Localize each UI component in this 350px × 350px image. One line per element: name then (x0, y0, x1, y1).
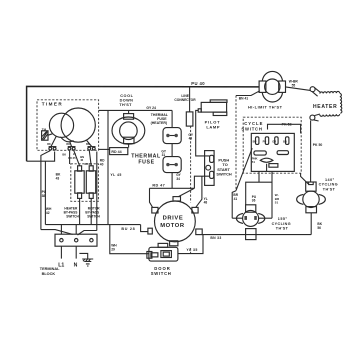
wire: push-to-start bottom stub (194, 176, 209, 188)
svg-text:BN 33: BN 33 (210, 236, 221, 240)
wire: x108 riser (YL-45) (107, 110, 109, 224)
heater element R1 (zigzag) (320, 91, 340, 93)
wire: thermal fuse bottom drop (171, 173, 173, 189)
wire: N lead (75, 246, 77, 258)
wire: motor by-pass bottom drop (90, 198, 92, 224)
svg-text:51: 51 (252, 160, 256, 164)
label RD 44 (boxed) (110, 148, 128, 155)
timer cam left circle (49, 113, 73, 137)
svg-text:DOWN: DOWN (120, 98, 134, 102)
svg-text:RD: RD (66, 143, 70, 146)
timer cam chin arc (61, 137, 74, 142)
drive motor M1 (148, 197, 202, 246)
140 cycling thermostat (297, 182, 326, 213)
svg-text:CONNECTOR: CONNECTOR (174, 98, 196, 102)
console boundary dashed line (190, 126, 192, 253)
wire: heater by-pass bottom drop (79, 198, 81, 224)
wire: YL-35 door switch to motor (178, 235, 203, 254)
svg-text:LAMP: LAMP (206, 125, 220, 130)
cycle switch small contact (269, 164, 278, 168)
svg-text:SWITCH: SWITCH (216, 172, 232, 177)
wire: BK drop second riser (44, 162, 46, 225)
svg-text:BLOCK: BLOCK (42, 272, 56, 276)
svg-text:RD 44: RD 44 (111, 150, 121, 154)
svg-text:TH'ST: TH'ST (276, 226, 289, 230)
wire: RD-44 to timer (99, 148, 110, 150)
svg-text:TM: TM (42, 127, 47, 131)
svg-text:MOTOR: MOTOR (160, 223, 185, 229)
cycle switch body (251, 133, 294, 171)
wire: WH-29 to door switch (110, 225, 149, 254)
wire: L1 lead (60, 246, 62, 258)
svg-text:42: 42 (46, 211, 50, 215)
155 cycling thermostat (236, 205, 264, 240)
wire: BN-41 jog to 155 thermostat (232, 191, 236, 218)
svg-text:FUSE: FUSE (138, 160, 154, 166)
svg-text:48: 48 (204, 201, 208, 205)
hi-limit thermostat (259, 71, 285, 102)
wire: timer to thermal fuse heater (GY-24) (99, 109, 173, 111)
by-pass switch dashed box (71, 164, 99, 202)
svg-text:TERMINAL: TERMINAL (40, 267, 60, 271)
svg-text:OR: OR (272, 140, 276, 144)
wire: YL-48 drop to motor (196, 176, 202, 207)
svg-text:34: 34 (176, 177, 180, 181)
wire: neutral bus horizontal (61, 224, 140, 226)
svg-text:TH'ST: TH'ST (323, 187, 336, 191)
svg-text:(HEATER): (HEATER) (151, 121, 167, 125)
svg-text:155°: 155° (278, 217, 288, 221)
svg-text:51: 51 (275, 201, 279, 205)
svg-text:RD 47: RD 47 (152, 184, 165, 188)
svg-text:BK: BK (62, 153, 66, 157)
wire: N terminal riser (75, 225, 77, 234)
wire: drop to thermal fuse heater (171, 110, 173, 127)
wire: line connector top lead (189, 87, 191, 112)
wire: cam drop (259, 164, 267, 182)
svg-text:YL 35: YL 35 (186, 248, 197, 252)
svg-text:TIMER: TIMER (42, 102, 63, 107)
svg-text:HEATER: HEATER (313, 104, 337, 110)
svg-text:38: 38 (42, 194, 46, 198)
heater plug connector bottom (310, 114, 320, 121)
svg-text:PU: PU (263, 140, 267, 144)
wire: contact2 to heater by-pass (70, 151, 80, 166)
wire: BK-56 drop (310, 213, 312, 235)
motor by-pass switch (cylinder) (86, 166, 95, 199)
thermal fuse (heater) (163, 128, 181, 144)
wire: BN-41 from hi-limit (236, 91, 260, 96)
timer contact 3 (88, 147, 96, 150)
wire: hi-limit to heater (286, 87, 311, 91)
wire: junction diagonal to motor top (179, 188, 195, 196)
timer switch arm 3 (87, 140, 92, 146)
timer contact 2 (68, 147, 76, 150)
timer switch arm 2 (70, 142, 72, 147)
svg-text:DOOR: DOOR (154, 266, 171, 271)
push to start switch (205, 151, 215, 186)
svg-text:SWITCH: SWITCH (87, 214, 100, 218)
cycle switch dashed box (243, 117, 301, 173)
svg-text:BN 41: BN 41 (239, 96, 249, 100)
svg-text:BK: BK (47, 143, 51, 146)
wire: RD-47 left drop to motor (150, 188, 153, 207)
wire: 155 right lead (259, 217, 272, 219)
svg-text:N: N (74, 263, 78, 269)
svg-text:40: 40 (100, 162, 104, 166)
timer motor (42, 131, 53, 140)
svg-text:43: 43 (56, 177, 60, 181)
wire: riser to timer contact 1 (27, 152, 55, 162)
svg-text:SWITCH: SWITCH (66, 214, 79, 218)
wire: between thermal fuses (171, 144, 173, 157)
wire: timer contact 3 drop RD-40 (78, 152, 97, 236)
svg-text:BU 28: BU 28 (121, 227, 135, 231)
svg-text:CYCLING: CYCLING (319, 183, 338, 187)
svg-text:CYCLING: CYCLING (272, 222, 291, 226)
svg-text:HI-LIMIT TH'ST: HI-LIMIT TH'ST (248, 105, 283, 110)
line connector (186, 112, 193, 126)
svg-text:56: 56 (317, 226, 321, 230)
thermal fuse (163, 157, 181, 173)
svg-text:29: 29 (111, 247, 115, 251)
PK-52 bracket (268, 124, 301, 133)
wire: to terminal block left diagonal (41, 230, 73, 235)
svg-text:SWITCH: SWITCH (241, 126, 262, 131)
wire: WH-42 drop from timer contact 1 (41, 151, 50, 230)
heater plug connector top (310, 87, 321, 97)
wire: RD-47 horizontal (150, 187, 195, 189)
timer cam right circle (61, 108, 95, 142)
timer box (37, 100, 99, 151)
wire: PU-36 run (246, 182, 272, 205)
svg-text:BN: BN (86, 143, 90, 146)
svg-text:36: 36 (252, 199, 256, 203)
svg-text:46: 46 (80, 158, 83, 162)
wire: cycle switch to 140 thermostat (301, 173, 309, 184)
wire: main top feed L1 (PU-40) (27, 86, 260, 161)
cycle switch contact bars (254, 151, 266, 155)
ground (79, 253, 93, 266)
wire: pilot lamp to push-to-start (196, 110, 210, 155)
svg-text:GY 24: GY 24 (146, 106, 156, 110)
svg-text:140°: 140° (325, 178, 335, 182)
wire: 155 left lead (232, 217, 242, 219)
svg-text:YL 45: YL 45 (110, 173, 121, 177)
heater by-pass switch (cylinder) (75, 166, 84, 199)
svg-text:41: 41 (234, 197, 238, 201)
svg-text:55: 55 (292, 83, 296, 87)
wire: W-BR run (271, 171, 273, 218)
svg-text:BU: BU (253, 140, 257, 144)
wire: BN-33 motor to cycling thermostats (202, 234, 311, 236)
wire: to terminal block L1 terminal (45, 225, 61, 235)
svg-text:PU 40: PU 40 (191, 81, 205, 86)
timer switch arm 1 (51, 136, 56, 147)
door switch (147, 243, 178, 261)
terminal block (55, 234, 97, 246)
svg-text:COOL: COOL (120, 94, 133, 98)
wire: BU-28 to drive motor (141, 225, 148, 232)
svg-text:SWITCH: SWITCH (151, 271, 172, 276)
timer contact 1 (49, 147, 57, 150)
wire: contact3 to motor by-pass (89, 151, 91, 166)
cool down thermostat (112, 110, 145, 147)
svg-text:PK 50: PK 50 (313, 143, 323, 147)
svg-text:BN: BN (283, 140, 287, 144)
pilot lamp (198, 100, 227, 116)
wire: BN-41 dashed drop (235, 96, 237, 191)
cycle switch cam (260, 158, 273, 162)
svg-text:DRIVE: DRIVE (163, 215, 184, 221)
cycle switch pins (256, 137, 259, 145)
svg-text:TH'ST: TH'ST (119, 103, 132, 107)
wire: PK-50 heater to 140 thermostat (310, 120, 312, 181)
wire: diagonal from cycle switch (236, 148, 252, 190)
